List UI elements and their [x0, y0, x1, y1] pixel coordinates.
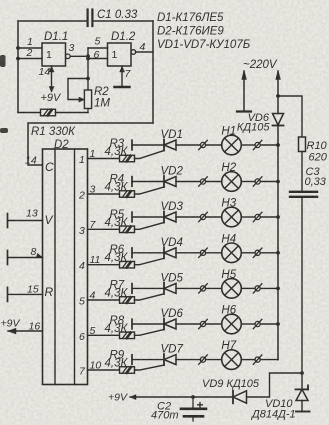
wire C3 down to VD10 node	[301, 198, 303, 374]
lamp H6	[222, 314, 242, 334]
connector X11	[199, 319, 208, 328]
junction at left border pin1	[16, 46, 20, 50]
lamp H5	[222, 279, 242, 299]
terminal bar below VD10	[296, 411, 310, 413]
wire common terminal to VD4 cathode	[132, 252, 164, 254]
connector X2	[253, 140, 262, 149]
wire connector to lamp H4	[206, 252, 222, 254]
wire D2 output 4 to R6	[88, 264, 120, 266]
thyristor VD7	[164, 354, 176, 365]
lamp H1	[222, 135, 242, 155]
connector X1	[199, 140, 208, 149]
wire bottom border left of R1	[18, 112, 41, 114]
+9V supply to D2 pin 16	[8, 330, 43, 332]
lamp H2	[222, 172, 242, 192]
mains terminal left (~220V)	[243, 71, 245, 112]
logic gate D1.2 body	[108, 43, 132, 66]
wire R2 bottom lead	[87, 109, 89, 113]
resistor R5 body	[120, 226, 135, 233]
junction VD10 node	[300, 371, 304, 375]
wire common terminal to VD3 cathode	[132, 216, 164, 218]
wire VD2 anode to connector	[176, 181, 200, 183]
wire right border of oscillator	[152, 21, 154, 123]
wire VD4 anode to connector	[176, 252, 200, 254]
wire connector to lamp H6	[206, 323, 222, 325]
wire input pin 6 of D1.2	[88, 58, 108, 60]
connector X12	[253, 319, 262, 328]
wire connector to mains rail	[260, 216, 278, 218]
wire D2 output 3 to R5	[88, 228, 120, 230]
wire R10 to C3	[301, 152, 303, 192]
resistor R7 body	[120, 297, 135, 304]
scan artifact marks	[0, 55, 8, 133]
wire R5 to VD3 gate	[135, 223, 165, 230]
wire oscillator output to D2 pin 14	[28, 123, 153, 165]
paper texture overlay (decorative)	[0, 0, 1, 1]
connector X9	[199, 284, 208, 293]
wire R4 to VD2 gate	[135, 187, 165, 194]
connector X13	[199, 355, 208, 364]
wire common terminal to VD6 cathode	[132, 323, 164, 325]
wire D2 output 7 to R9	[88, 369, 120, 371]
junction rail / channel 3	[276, 215, 280, 219]
wire connector to lamp H7	[206, 359, 222, 361]
thyristor VD2	[164, 176, 176, 187]
wire lamp H2 to connector	[241, 181, 255, 183]
wire D2 output 6 to R8	[88, 334, 120, 336]
wire input pin 1 of D1.1	[18, 47, 42, 49]
wire R1 to R2 bottom	[56, 112, 89, 114]
wire R6 to VD4 gate	[135, 258, 165, 264]
wire lamp H6 to connector	[241, 323, 255, 325]
wire input pin 2 of D1.1	[18, 58, 42, 60]
IC D2 body	[43, 149, 88, 385]
lamp H3	[222, 207, 242, 227]
wire D2 output 5 to R7	[88, 299, 120, 301]
wire VD6 anode to connector	[176, 323, 200, 325]
wire VD7 anode to connector	[176, 359, 200, 361]
wire lamp H3 to connector	[241, 216, 255, 218]
resistor R4 body	[120, 191, 135, 198]
wire D2 pin 15 to common terminal	[8, 293, 43, 295]
wire common terminal to VD5 cathode	[132, 287, 164, 289]
zener diode VD10	[301, 373, 303, 389]
wire R9 to VD7 gate	[135, 365, 165, 370]
wire common terminal to VD1 cathode	[132, 144, 164, 146]
wire D2 output 1 to R3	[88, 158, 120, 160]
capacitor C1	[88, 10, 93, 27]
junction rail / channel 1	[276, 143, 280, 147]
wire R8 to VD6 gate	[135, 330, 165, 336]
resistor R3 body	[120, 155, 135, 162]
connector X6	[253, 212, 262, 221]
wire connector to lamp H3	[206, 216, 222, 218]
junction rail / channel 4	[276, 251, 280, 255]
wire anode rail down to channel 7	[277, 127, 279, 360]
wire lamp H4 to connector	[241, 252, 255, 254]
wire D2 pin 8 to common terminal	[8, 257, 43, 259]
wire common terminal to VD7 cathode	[132, 359, 164, 361]
junction C2 tap	[191, 395, 195, 399]
wire connector to lamp H1	[206, 144, 222, 146]
logic gate D1.1 body	[42, 43, 66, 66]
wire top border to C1	[18, 20, 87, 22]
inverter bubble D1.1 output	[66, 54, 71, 59]
thyristor VD1	[164, 140, 176, 151]
wire common terminal to VD2 cathode	[132, 181, 164, 183]
junction rail / R10 branch	[276, 94, 280, 98]
wire input pin 5 of D1.2	[88, 47, 108, 49]
mains terminal right / anode rail	[277, 71, 279, 114]
wire VD3 anode to connector	[176, 216, 200, 218]
thyristor VD6	[164, 319, 176, 330]
wire connector to mains rail	[260, 252, 278, 254]
wire lamp H5 to connector	[241, 287, 255, 289]
wire VD1 anode to connector	[176, 144, 200, 146]
terminal bar channel 2	[131, 177, 133, 187]
connector X14	[253, 355, 262, 364]
thyristor VD4	[164, 247, 176, 258]
diode VD9	[233, 391, 247, 404]
lamp H4	[222, 243, 242, 263]
resistor R1 body	[41, 109, 56, 116]
resistor R10 body	[299, 137, 306, 152]
thyristor VD3	[164, 212, 176, 223]
connector X8	[253, 248, 262, 257]
wire VD9 to +9V output	[130, 396, 233, 398]
wire lamp H1 to connector	[241, 144, 255, 146]
junction wiper tie	[86, 77, 90, 81]
wire R3 to VD1 gate	[135, 151, 165, 159]
diode VD8 (printed VD6 in original)	[273, 114, 284, 126]
wire VD5 anode to connector	[176, 287, 200, 289]
wire VD10 node to VD9	[247, 373, 302, 397]
wire left border of oscillator loop	[17, 21, 19, 113]
inverter bubble D1.2 output	[131, 50, 136, 55]
resistor R6 body	[120, 261, 135, 268]
wire connector to mains rail	[260, 323, 278, 325]
junction rail / channel 6	[276, 322, 280, 326]
wire connector to mains rail	[260, 144, 278, 146]
wire D2 pin 13 to common terminal	[8, 220, 43, 222]
capacitor C3	[290, 192, 317, 197]
wire D2 output 2 to R4	[88, 193, 120, 195]
terminal bar channel 7	[131, 355, 133, 365]
junction rail / channel 5	[276, 287, 280, 291]
+9V supply arrow at D1.1 pin 14	[51, 66, 53, 91]
thyristor VD5	[164, 283, 176, 294]
connector X4	[253, 177, 262, 186]
resistor R9 body	[120, 367, 135, 374]
wire connector to mains rail	[260, 359, 278, 361]
terminal bar channel 3	[131, 212, 133, 222]
wire R7 to VD5 gate	[135, 294, 165, 300]
wire connector to mains rail	[260, 287, 278, 289]
wire R2 wiper loop	[68, 79, 88, 100]
resistor R8 body	[120, 332, 135, 339]
wire C1 to top-right corner	[94, 20, 154, 22]
terminal bar channel 4	[131, 248, 133, 258]
wire connector to mains rail	[260, 181, 278, 183]
wire D1.2 output to right border	[136, 51, 153, 53]
connector X7	[199, 248, 208, 257]
wire D1.1 output	[70, 55, 88, 57]
connector X5	[199, 212, 208, 221]
resistor R2 body	[84, 90, 91, 109]
arrow into pin 8	[36, 253, 43, 259]
junction at left border pin2	[16, 57, 20, 61]
wire connector to lamp H5	[206, 287, 222, 289]
wire lamp H7 to connector	[241, 359, 255, 361]
connector X10	[253, 284, 262, 293]
lamp H7	[222, 350, 242, 370]
node: D1.1 output branch vertical	[87, 48, 89, 90]
junction rail / channel 2	[276, 180, 280, 184]
terminal bar channel 5	[131, 284, 133, 294]
ground symbol at D1.2 pin 7	[121, 66, 123, 87]
junction D1.1 out / D1.2 inputs	[86, 54, 90, 58]
wire connector to lamp H2	[206, 181, 222, 183]
connector X3	[199, 177, 208, 186]
terminal bar channel 1	[131, 140, 133, 150]
wire VD10 anode lead	[301, 401, 303, 412]
terminal bar channel 6	[131, 319, 133, 329]
